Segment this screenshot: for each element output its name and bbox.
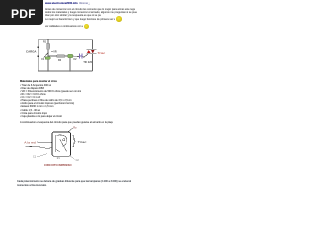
wire right edge — [91, 40, 93, 71]
svg-text:C1: C1 — [33, 156, 37, 159]
brace triac — [73, 135, 88, 147]
svg-text:Triac: Triac — [97, 51, 106, 55]
callout C2 bottom right — [69, 156, 79, 163]
node load top — [37, 47, 39, 49]
paragraph line 1 — [45, 8, 135, 11]
bottom paragraph line 2 — [17, 184, 56, 187]
label VR — [51, 51, 57, 54]
label C2 — [73, 58, 77, 61]
node C2 bottom — [69, 70, 71, 72]
svg-text:CARGA: CARGA — [26, 51, 37, 54]
paragraph line 3 — [45, 14, 101, 17]
node load bottom — [37, 56, 39, 58]
label TIC226 — [83, 61, 92, 64]
label C1 — [41, 58, 45, 61]
svg-text:CIRCUITO IMPRESO: CIRCUITO IMPRESO — [44, 163, 72, 167]
svg-text:VR: VR — [53, 51, 57, 54]
wire mains upper — [37, 141, 52, 144]
diac D1 — [80, 54, 82, 59]
wire middle — [48, 55, 56, 57]
svg-text:Triac: Triac — [78, 140, 88, 144]
label CIRCUITO IMPRESO — [44, 163, 72, 167]
potentiometer VR arrow — [44, 52, 49, 58]
label R2 — [58, 59, 62, 62]
svg-text:C1: C1 — [41, 58, 45, 61]
wire mains lower — [26, 146, 53, 148]
link line — [45, 2, 78, 5]
PDF badge label — [11, 8, 36, 20]
callout VR top — [67, 126, 77, 132]
node C1 bottom — [47, 70, 49, 72]
svg-text:Ro: Ro — [73, 126, 77, 129]
node R1 top — [47, 39, 49, 41]
node wiper — [47, 55, 49, 57]
materials header — [20, 80, 57, 83]
PCB box — [52, 132, 71, 156]
wire bottom rail — [38, 70, 92, 72]
svg-text:C2: C2 — [76, 159, 80, 162]
capacitor C1 — [45, 57, 50, 71]
bottom paragraph line 1 — [17, 180, 131, 183]
label CARGA — [26, 51, 37, 54]
svg-text:A la red: A la red — [24, 140, 36, 144]
svg-text:R1: R1 — [57, 158, 61, 160]
PCB sketch — [55, 135, 67, 152]
wire left edge — [37, 40, 39, 71]
resistor R1 — [47, 40, 50, 56]
wire gate — [82, 53, 88, 57]
capacitor C2 — [68, 54, 79, 71]
paragraph line 2 — [45, 11, 137, 14]
materials list — [20, 84, 81, 118]
smiley 1 — [116, 16, 122, 22]
svg-text:R1: R1 — [43, 41, 47, 44]
intro line for pcb — [20, 121, 113, 124]
callout C1 bottom left — [33, 154, 47, 159]
svg-text:R2: R2 — [58, 59, 62, 62]
label Triac red — [97, 51, 106, 55]
smiley 2 — [84, 24, 89, 29]
label A la red — [24, 140, 36, 144]
PDF badge — [0, 0, 43, 25]
triac T1 — [86, 49, 96, 53]
resistor R2 — [56, 55, 68, 57]
label R1 below box — [57, 158, 61, 160]
svg-text:C2: C2 — [73, 58, 77, 61]
wire top rail — [38, 39, 92, 41]
label R1 — [43, 41, 47, 44]
svg-text:TIC 226: TIC 226 — [83, 61, 92, 64]
paragraph line 5 — [45, 25, 83, 28]
paragraph line 4 — [45, 18, 115, 21]
